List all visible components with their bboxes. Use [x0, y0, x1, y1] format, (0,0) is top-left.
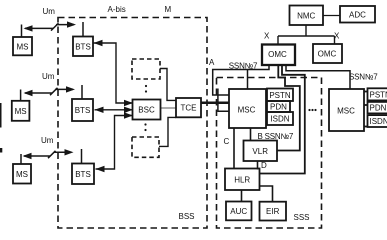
svg-text:EIR: EIR [266, 207, 280, 216]
svg-text:Um: Um [41, 136, 54, 145]
antenna BTS2 [81, 85, 83, 99]
wire VLR-HLR D [257, 161, 259, 170]
svg-text:A-bis: A-bis [108, 5, 126, 14]
PDN box 2 [368, 102, 387, 114]
scan artifact left edge [0, 103, 2, 128]
wire HLR-EIR [260, 186, 273, 202]
wire A trunk TCE-MSC [201, 102, 229, 105]
AUC box [226, 202, 252, 221]
svg-text:PDN: PDN [370, 104, 387, 113]
PDN box 1 [267, 101, 290, 112]
MS box 3 [13, 164, 31, 184]
radio link MS1-BTS1 [25, 23, 74, 30]
OMC box left [262, 45, 295, 66]
svg-text:PSTN: PSTN [269, 91, 291, 100]
TCE box [176, 98, 201, 117]
PSTN box 2 [368, 88, 387, 100]
wire MSC2-PDN2 [364, 104, 368, 106]
svg-text:A: A [209, 58, 215, 67]
MS box 2 [12, 101, 30, 121]
wire upper dashed BSC to TCE [160, 69, 176, 101]
svg-text:MS: MS [17, 43, 29, 52]
ISDN box 2 [368, 115, 387, 127]
antenna BTS3 [81, 149, 83, 164]
svg-text:BSC: BSC [138, 106, 155, 115]
dots above BSC [145, 85, 147, 93]
HLR box [225, 169, 260, 191]
PSTN box 1 [267, 89, 293, 102]
wire MSC-VLR B [250, 128, 252, 141]
svg-text:ISDN: ISDN [370, 117, 387, 126]
svg-text:OMC: OMC [318, 49, 337, 58]
BSC box [133, 100, 161, 120]
svg-text:ISDN: ISDN [270, 115, 289, 124]
wire HLR-AUC [241, 190, 243, 202]
svg-text:B SSN№7: B SSN№7 [258, 132, 294, 141]
wire MSC2-ISDN2 [364, 126, 368, 128]
wire BSC-TCE [161, 107, 177, 109]
svg-text:MS: MS [15, 107, 27, 116]
dashed box upper BSC [132, 59, 160, 79]
MS box 1 [13, 37, 32, 55]
antenna MS1 [21, 25, 23, 38]
antenna MS2 [20, 90, 22, 102]
wire NMC to OMCs [278, 25, 335, 45]
wire BTS3-BSC [96, 116, 133, 170]
svg-text:ADC: ADC [349, 10, 366, 19]
OMC box right [313, 44, 342, 63]
svg-text:C: C [224, 137, 230, 146]
wire into MSC left lower [218, 89, 229, 112]
svg-text:Um: Um [42, 72, 55, 81]
wire OMC to HLR [260, 65, 305, 174]
svg-text:Um: Um [43, 7, 56, 16]
MSC box 1 [229, 89, 266, 128]
wire MSC-HLR C [233, 128, 235, 169]
antenna MS3 [20, 154, 22, 164]
svg-text:SSN№7: SSN№7 [349, 72, 378, 81]
radio link MS2-BTS2 [25, 88, 73, 95]
svg-text:D: D [261, 161, 267, 170]
wire OMC to MSC left [213, 65, 269, 95]
wire OMC to VLR [278, 65, 300, 151]
wire OMC to MSC2 [286, 65, 350, 89]
BTS box 1 [73, 37, 93, 57]
svg-text:BSS: BSS [179, 212, 195, 221]
svg-text:X: X [264, 32, 270, 41]
wire NMC-ADC [323, 15, 340, 17]
dots ellipsis before MSC2 [308, 109, 316, 111]
radio link MS3-BTS3 [24, 151, 72, 158]
VLR box [244, 141, 278, 162]
antenna BTS1 [82, 22, 84, 37]
svg-text:NMC: NMC [297, 11, 315, 20]
EIR box [260, 202, 287, 221]
svg-text:TCE: TCE [181, 104, 197, 113]
svg-text:PSTN: PSTN [370, 90, 387, 99]
dashed box lower BSC [132, 137, 159, 157]
SSS dashed container [217, 78, 322, 229]
svg-text:SSS: SSS [294, 213, 310, 222]
wire OMC branch to MSC top [247, 70, 249, 90]
svg-text:BTS: BTS [75, 106, 91, 115]
ISDN box 1 [267, 112, 293, 125]
svg-text:BTS: BTS [75, 170, 91, 179]
svg-text:SSN№7: SSN№7 [229, 61, 258, 70]
svg-text:PDN: PDN [270, 103, 287, 112]
ADC box [340, 6, 375, 23]
svg-text:VLR: VLR [252, 147, 268, 156]
svg-text:X: X [334, 32, 340, 41]
svg-text:BTS: BTS [75, 42, 91, 51]
svg-text:MSC: MSC [337, 107, 355, 116]
svg-text:MS: MS [16, 170, 28, 179]
svg-text:M: M [165, 5, 172, 14]
wire lower dashed BSC to TCE [159, 117, 176, 146]
wire BTS1-BSC [94, 43, 133, 103]
MSC box 2 [329, 89, 364, 131]
dots below BSC [144, 123, 146, 131]
svg-text:OMC: OMC [268, 50, 287, 59]
BSS dashed container [58, 18, 207, 229]
BTS box 3 [72, 164, 94, 185]
svg-text:HLR: HLR [234, 175, 250, 184]
BTS box 2 [72, 99, 93, 121]
NMC box [290, 6, 324, 26]
scan artifact left blob [0, 148, 2, 153]
wire MSC2-PSTN2 [364, 91, 368, 93]
svg-text:MSC: MSC [238, 105, 256, 114]
wire BTS2-BSC [95, 109, 133, 111]
svg-text:AUC: AUC [230, 207, 247, 216]
